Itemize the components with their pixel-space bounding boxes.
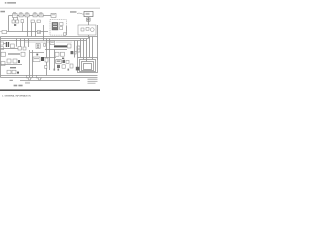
block U102: [19, 14, 23, 17]
footer rule: [0, 89, 100, 91]
wire: drop x31.5: [32, 50, 34, 78]
connector CN103: [1, 52, 5, 56]
wire: cluster feed: [44, 57, 56, 59]
wire loop: ribbon outer: [78, 58, 98, 73]
connector CN108: [7, 70, 11, 74]
wire loop: ribbon 2: [80, 60, 96, 72]
transformer T101: [6, 42, 9, 47]
wire: drop x16.5: [16, 39, 18, 47]
wire loop: ribbon inner: [84, 64, 92, 70]
connector CN105: [13, 59, 17, 63]
IC U112 power module: [54, 45, 67, 47]
wire: rail under U112: [45, 49, 67, 51]
wire: D115 branch: [30, 52, 44, 54]
capacitor C125: [60, 52, 64, 56]
diode D116: [36, 54, 38, 56]
connector CN104: [7, 59, 11, 63]
wire: right border rail: [97, 25, 99, 60]
wire loop: ribbon 3: [82, 62, 94, 71]
figure label: [0, 11, 5, 13]
IC U110: [52, 22, 58, 30]
wire: left border rail: [0, 37, 2, 78]
wire: drop x54: [54, 50, 56, 71]
relay RY101: [90, 28, 94, 32]
jumper row JW101: [10, 67, 16, 68]
heatsink bar: [8, 53, 20, 55]
wire: main rail C: [1, 38, 89, 40]
IC U122: [62, 60, 65, 63]
label AC input: [70, 11, 77, 13]
wire: bus drop x80: [80, 39, 82, 58]
rectifier D111: [11, 44, 15, 48]
label above U102: [20, 11, 23, 14]
connector CN106: [1, 62, 5, 66]
wire: drop x28.5: [28, 39, 30, 48]
ground lug G1: [27, 75, 33, 80]
capacitor C101: [12, 20, 15, 23]
wire: bus drop x74: [74, 41, 76, 58]
line filter block: [78, 25, 96, 35]
capacitor C130: [74, 51, 76, 54]
wire: SW101 to feed: [7, 31, 9, 33]
wire: drop x24.5: [24, 39, 26, 47]
wire: secondary rail: [1, 48, 19, 50]
label above U103: [26, 11, 29, 14]
wire: U110 drop: [66, 26, 68, 35]
capacitor C126: [45, 58, 48, 62]
wire: bottom rail A: [1, 75, 98, 77]
wire: T101 link: [4, 43, 6, 45]
ground lug G2: [37, 75, 43, 80]
capacitor C129: [45, 66, 47, 69]
capacitor C102: [16, 20, 19, 23]
wire: bus drop x83: [83, 39, 85, 60]
wire: main rail D: [1, 40, 87, 42]
diode D113: [18, 60, 20, 63]
wire: mid rail A: [9, 31, 49, 33]
capacitor C112: [60, 27, 63, 30]
wire: filter output: [88, 35, 90, 39]
wire: bus drop x92: [92, 37, 94, 60]
diode D112: [62, 58, 64, 59]
label above U101: [13, 11, 16, 14]
wire: AC lead squiggle: [77, 13, 84, 14]
resistor R120: [54, 69, 56, 71]
block U106: [51, 13, 56, 17]
wire: main rail B: [1, 36, 98, 38]
wire: bus drop x77: [77, 41, 79, 58]
wire: drop x43.5: [43, 25, 45, 41]
diode D110: [37, 30, 40, 33]
wire: drop from U102: [17, 17, 19, 20]
capacitor C123: [21, 52, 25, 56]
inductor L101: [86, 28, 89, 31]
wire: drop x29: [29, 50, 31, 78]
transistor Q101: [77, 46, 80, 52]
IC U123: [57, 65, 60, 68]
wire: aux rail left: [1, 64, 23, 66]
transistor Q102: [70, 64, 73, 68]
wire: drop from U101: [13, 18, 15, 21]
note block line 1: [88, 76, 98, 79]
block U104: [33, 14, 37, 17]
capacitor C127: [66, 60, 69, 63]
wire: bottom rail B: [1, 77, 98, 79]
header running title: [5, 2, 16, 4]
diode D101: [14, 24, 16, 26]
capacitor C111: [60, 22, 63, 25]
resistor R103: [37, 20, 40, 23]
capacitor C124: [55, 52, 59, 56]
switch SW101: [0, 30, 6, 33]
wire: drop x27.5: [27, 17, 29, 37]
wire: drop x31: [31, 23, 33, 37]
note block line 2: [88, 78, 98, 81]
wire: drop x20.5: [20, 39, 22, 48]
diode D114: [17, 72, 19, 74]
regulator IC U111: [50, 41, 55, 45]
capacitor C128: [62, 65, 65, 68]
label: voltage note: [10, 80, 13, 81]
IC U121: [56, 60, 61, 64]
resistor R111: [43, 44, 45, 47]
block U101: [13, 14, 18, 18]
wire: bus drop x86: [86, 39, 88, 62]
resistor R102: [31, 20, 34, 23]
connector CN107: [76, 67, 80, 71]
note block line 4: [88, 82, 96, 85]
capacitor C120: [18, 47, 21, 50]
fuse F101: [87, 18, 91, 21]
block U105: [39, 14, 43, 17]
wire: drop x35: [35, 23, 37, 37]
resistor R101: [21, 20, 24, 23]
wire: inlet to filter: [88, 17, 90, 25]
resistor R122: [68, 69, 70, 71]
wire: top signal bus: [9, 15, 52, 17]
label strip: right part numbers: [56, 42, 72, 43]
wire: drop from R101: [22, 23, 24, 32]
connector CN109: [12, 70, 16, 74]
capacitor C110: [81, 28, 84, 31]
label above U105: [40, 11, 43, 14]
dual diode D115: [36, 44, 40, 49]
figure caption: [14, 85, 23, 87]
crystal X101: [41, 57, 44, 61]
stub: board edge: [25, 82, 30, 84]
wire: bus drop x89: [89, 37, 91, 58]
wire: bottom rail C: [20, 80, 80, 82]
note block line 3: [88, 80, 98, 83]
diode D117: [71, 51, 74, 54]
label above U104: [34, 11, 37, 14]
svg-text:1. GENERAL INFORMATION: 1. GENERAL INFORMATION: [2, 95, 31, 98]
IC U120: [33, 57, 40, 62]
capacitor C121: [23, 47, 26, 50]
top horizontal rule: [0, 7, 100, 9]
AC inlet J101: [84, 11, 93, 16]
connector CN102: [1, 47, 4, 50]
resistor R121: [58, 69, 60, 71]
wire: drop x49: [49, 39, 51, 71]
label strip: part numbers row: [25, 41, 55, 42]
connector CN101: [1, 42, 4, 45]
shield box (dashed) around U110: [50, 20, 66, 36]
resistor R110: [63, 33, 66, 36]
wire: drop x46.5: [46, 39, 48, 76]
block U103: [25, 14, 29, 17]
capacitor C122: [68, 44, 71, 48]
wire: left vertical feed: [8, 16, 10, 32]
